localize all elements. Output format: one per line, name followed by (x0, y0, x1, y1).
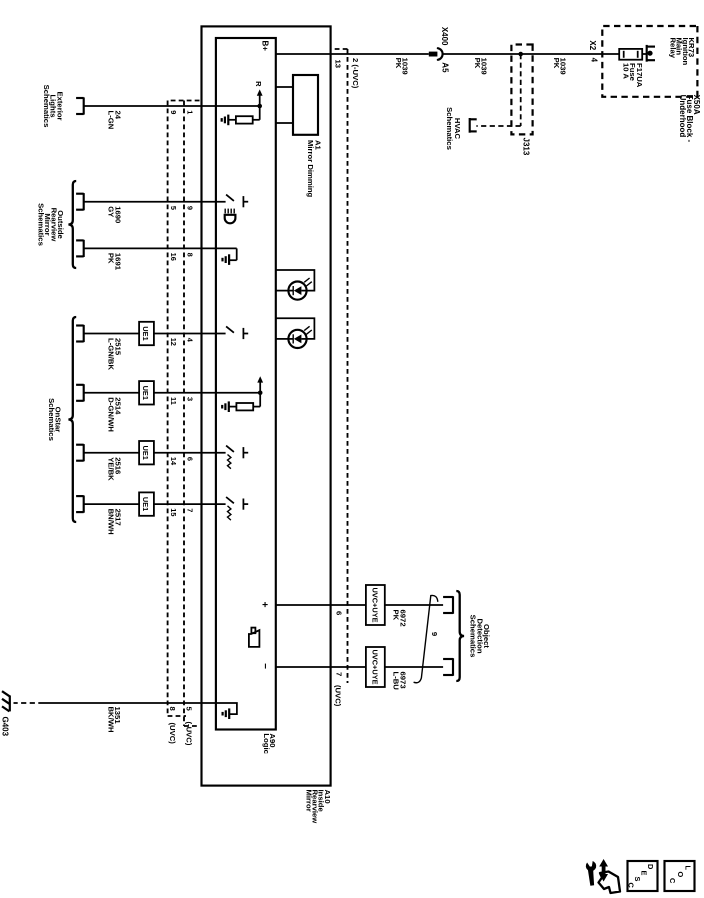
svg-text:UE1: UE1 (141, 497, 150, 511)
svg-text:C: C (627, 883, 636, 889)
splice pack UE1 (139, 492, 154, 515)
svg-text:3: 3 (186, 397, 195, 401)
svg-text:PK: PK (552, 58, 561, 69)
svg-text:E: E (640, 871, 649, 876)
wire circuit 2517 BN/WH (84, 503, 226, 505)
junction dot J313 (518, 52, 523, 57)
svg-text:(-UVC): (-UVC) (184, 722, 193, 746)
wire 6972 PK (276, 604, 385, 606)
svg-text:11: 11 (169, 397, 178, 405)
svg-text:2 (-UVC): 2 (-UVC) (351, 58, 360, 89)
svg-text:4: 4 (186, 338, 195, 343)
brace Object Detection (456, 591, 464, 681)
svg-text:S: S (633, 877, 642, 882)
ground G403 (9, 695, 11, 711)
wire B+ X400 to inner box (276, 53, 429, 55)
svg-text:8: 8 (186, 253, 195, 257)
camera flag symbol A90 (249, 630, 260, 647)
wire A1 stub left (276, 86, 293, 88)
svg-text:Logic: Logic (262, 733, 271, 754)
svg-text:(UVC): (UVC) (334, 685, 343, 707)
connector label UVC+UYE (366, 647, 385, 687)
component A1 Mirror Dimming box (293, 75, 318, 135)
svg-text:C: C (668, 878, 677, 884)
svg-text:Mirror: Mirror (305, 790, 314, 812)
ground loop 1691 (236, 248, 238, 260)
svg-text:BK/WH: BK/WH (106, 707, 115, 733)
svg-text:6: 6 (186, 457, 195, 461)
svg-text:R: R (254, 81, 263, 87)
wire circuit 1690 GY (84, 201, 226, 203)
svg-text:UVC+UYE: UVC+UYE (370, 587, 379, 622)
svg-text:15: 15 (169, 508, 178, 516)
connector J313 dashed box (511, 45, 532, 135)
svg-text:5: 5 (169, 206, 178, 210)
svg-text:X2: X2 (588, 40, 597, 50)
connector line -UVC horizontal dashed (347, 49, 349, 683)
wire B+ fuse to X400 (443, 53, 619, 55)
fuse block X50A dashed box (602, 26, 697, 97)
component box A10 outer (202, 26, 331, 785)
twisted pair symbol (414, 595, 438, 682)
splice pack UE1 (139, 441, 154, 464)
svg-text:7: 7 (335, 672, 344, 676)
svg-text:−: − (259, 663, 270, 669)
svg-text:G403: G403 (1, 717, 10, 737)
terminal 2516 (83, 444, 85, 461)
svg-text:L-GN: L-GN (107, 111, 116, 130)
svg-text:B+: B+ (260, 41, 269, 52)
svg-text:14: 14 (169, 457, 178, 466)
wire circuit 24 L-GN (84, 105, 260, 107)
svg-text:9: 9 (186, 206, 195, 210)
fuse F17UA (619, 49, 642, 60)
wire circuit 1691 PK (84, 247, 237, 249)
LED indicator (288, 282, 306, 300)
svg-text:GY: GY (107, 206, 116, 217)
svg-text:Schematics: Schematics (469, 615, 478, 658)
svg-text:L: L (684, 866, 693, 871)
svg-text:PK: PK (394, 58, 403, 69)
svg-text:9: 9 (430, 632, 439, 636)
svg-text:PK: PK (473, 58, 482, 69)
svg-text:BN/WH: BN/WH (107, 509, 116, 535)
svg-text:YE/BK: YE/BK (107, 457, 116, 481)
terminal 1691 (83, 240, 85, 257)
svg-text:L-BU: L-BU (392, 672, 401, 691)
brace OnStar (68, 317, 76, 522)
svg-text:12: 12 (169, 338, 178, 346)
terminal HVAC branch (469, 118, 471, 133)
svg-text:Schematics: Schematics (36, 203, 45, 246)
resistor node (258, 391, 263, 396)
svg-text:7: 7 (186, 508, 195, 512)
svg-text:8: 8 (168, 707, 177, 712)
svg-text:1: 1 (186, 110, 195, 114)
terminal 2515 (83, 325, 85, 342)
icon DESC box (628, 861, 658, 891)
svg-text:D: D (646, 864, 655, 870)
terminal 6972 (452, 596, 454, 614)
relay KR73 contact bracket (646, 45, 648, 62)
terminal 1690 (83, 193, 85, 210)
svg-text:4: 4 (590, 58, 599, 63)
icon wrench and arrows (584, 857, 620, 893)
wire 6973 L-BU (276, 666, 385, 668)
svg-text:Underhood: Underhood (678, 95, 687, 138)
svg-text:UE1: UE1 (141, 326, 150, 340)
momentary switch (226, 446, 234, 452)
svg-text:5: 5 (184, 707, 193, 712)
icon LOC box (665, 861, 695, 891)
ground A90 internal (228, 708, 230, 719)
brace Outside Rearview Mirror (68, 181, 76, 268)
terminal 24 (83, 97, 85, 114)
svg-text:9: 9 (169, 110, 178, 114)
svg-text:Schematics: Schematics (47, 398, 56, 441)
wire circuit 2515 L-GN/BK (84, 333, 226, 335)
wire A1 stub right (276, 122, 293, 124)
component box A90 Logic inner (216, 38, 276, 730)
svg-text:Mirror Dimming: Mirror Dimming (306, 140, 315, 198)
switch dimming (226, 195, 234, 201)
wire circuit 2516 YE/BK (84, 452, 226, 454)
connector line UVC dashed lower (167, 101, 169, 717)
connector X400 (438, 48, 443, 60)
photocell sensor (233, 209, 235, 214)
connector lines left bend (168, 100, 200, 102)
svg-text:16: 16 (169, 253, 178, 261)
svg-text:UE1: UE1 (141, 386, 150, 400)
svg-text:PK: PK (392, 610, 401, 621)
momentary switch (226, 497, 234, 503)
svg-text:Relay: Relay (668, 38, 677, 59)
splice pack UE1 (139, 322, 154, 345)
wire 1351 dashed to G403 (14, 702, 44, 704)
wire 1351 inside A90 (216, 703, 237, 714)
svg-text:L-GN/BK: L-GN/BK (107, 338, 116, 370)
svg-text:D-GN/WH: D-GN/WH (107, 397, 116, 432)
svg-text:+: + (258, 602, 269, 608)
svg-text:10 A: 10 A (622, 63, 631, 79)
svg-text:Schematics: Schematics (445, 107, 454, 150)
splice pack UE1 (139, 381, 154, 404)
svg-text:PK: PK (107, 253, 116, 264)
terminal 6973 (452, 658, 454, 676)
svg-text:UVC+UYE: UVC+UYE (370, 649, 379, 684)
terminal 2517 (83, 496, 85, 513)
connector label UVC+UYE (366, 585, 385, 625)
wire relay to fuse (642, 53, 647, 55)
svg-text:O: O (676, 872, 685, 878)
resistor and R arrow node (257, 104, 262, 109)
svg-text:UE1: UE1 (141, 446, 150, 460)
svg-text:13: 13 (334, 60, 343, 69)
LED indicator (288, 330, 306, 348)
switch (226, 326, 234, 332)
junction dot relay output (647, 51, 652, 56)
svg-text:6: 6 (335, 611, 344, 615)
svg-text:Schematics: Schematics (42, 85, 51, 128)
svg-text:A5: A5 (441, 62, 450, 73)
svg-text:J313: J313 (521, 138, 530, 156)
svg-text:(UVC): (UVC) (168, 723, 177, 745)
wire dashed branch to HVAC (520, 54, 522, 126)
connector line -UVC dashed upper (183, 101, 185, 727)
wire 1351 BK/WH (44, 702, 216, 704)
wire circuit 2514 D-GN/WH (84, 392, 261, 394)
terminal 2514 (83, 384, 85, 401)
svg-text:X400: X400 (440, 27, 449, 46)
